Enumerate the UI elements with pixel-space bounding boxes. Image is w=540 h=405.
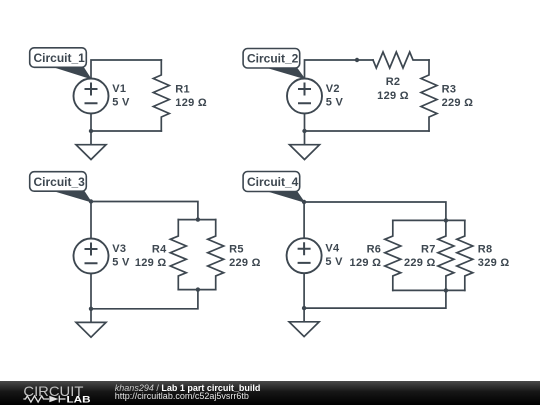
wire: V4 bottom stub to ground <box>303 273 305 322</box>
svg-text:LAB: LAB <box>67 395 92 405</box>
node dot circuit2 bottom <box>302 129 306 133</box>
svg-text:V4: V4 <box>325 243 340 255</box>
wire: V2 bottom stub to ground <box>304 114 306 145</box>
label Circuit_3 <box>55 191 91 202</box>
svg-text:R4: R4 <box>152 243 167 255</box>
wire: V3 top stub <box>90 202 92 239</box>
svg-text:Circuit_2: Circuit_2 <box>247 52 299 66</box>
node dot circuit4 bottom <box>302 306 306 310</box>
logo zigzag and diode <box>23 396 65 403</box>
resistor R2 (horizontal) <box>373 52 429 68</box>
svg-text:Circuit_4: Circuit_4 <box>247 175 299 189</box>
node dot circuit4 topleft <box>302 200 306 204</box>
label Circuit_2 <box>269 68 305 79</box>
svg-text:229 Ω: 229 Ω <box>404 257 436 269</box>
svg-text:R3: R3 <box>442 83 457 95</box>
svg-text:5 V: 5 V <box>112 257 130 269</box>
svg-text:229 Ω: 229 Ω <box>229 257 261 269</box>
wire: top from V4 to parallel block <box>304 202 446 220</box>
wire: block4 bottom bar <box>393 289 465 291</box>
resistor R3 <box>421 60 437 131</box>
svg-text:129 Ω: 129 Ω <box>175 97 207 109</box>
voltage source V3 <box>74 239 109 274</box>
svg-text:Circuit_1: Circuit_1 <box>34 51 86 65</box>
svg-text:R5: R5 <box>229 243 244 255</box>
svg-text:129 Ω: 129 Ω <box>377 90 409 102</box>
wire: V1 top to corner <box>91 60 161 79</box>
wire: block3 to bottom rail <box>91 290 198 309</box>
ground circuit3 <box>76 322 106 337</box>
resistor R1 <box>153 60 169 131</box>
wire: V4 top stub <box>303 202 305 238</box>
svg-text:5 V: 5 V <box>326 97 344 109</box>
ground circuit4 <box>289 322 319 337</box>
node dot block3 bottom <box>196 287 200 291</box>
svg-text:Circuit_3: Circuit_3 <box>34 175 86 189</box>
wire: bottom return to V1 <box>91 130 161 132</box>
wire: block3 top bar <box>178 219 215 221</box>
svg-text:http://circuitlab.com/c52aj5vs: http://circuitlab.com/c52aj5vsrr6tb <box>115 391 249 401</box>
wire: V3 bottom stub to ground <box>90 274 92 323</box>
svg-text:R2: R2 <box>386 76 401 88</box>
ground circuit2 <box>290 145 320 160</box>
resistor R6 <box>385 220 401 290</box>
svg-text:229 Ω: 229 Ω <box>442 97 474 109</box>
node dot block3 top <box>196 217 200 221</box>
voltage source V1 <box>74 79 109 114</box>
node dot block4 bottom <box>444 288 448 292</box>
wire: block4 top bar <box>393 219 465 221</box>
resistor R7 <box>438 220 454 290</box>
wire: V1 bottom stub to ground <box>90 114 92 145</box>
svg-text:329 Ω: 329 Ω <box>478 257 510 269</box>
node dot circuit3 bottom <box>89 307 93 311</box>
svg-text:V1: V1 <box>112 83 126 95</box>
label Circuit_1 <box>55 67 90 78</box>
wire: top from V3 to parallel block <box>91 202 198 220</box>
wire: block3 bottom bar <box>178 289 215 291</box>
svg-text:5 V: 5 V <box>112 97 130 109</box>
voltage source V2 <box>287 79 322 114</box>
svg-text:129 Ω: 129 Ω <box>135 257 167 269</box>
svg-text:129 Ω: 129 Ω <box>350 257 382 269</box>
svg-text:5 V: 5 V <box>325 256 343 268</box>
node dot circuit2 top <box>355 58 359 62</box>
node dot block4 top <box>444 218 448 222</box>
ground circuit1 <box>76 145 106 160</box>
resistor R5 <box>208 220 224 290</box>
label Circuit_4 <box>269 191 304 202</box>
node dot circuit3 topleft <box>89 199 93 203</box>
svg-text:R6: R6 <box>367 243 382 255</box>
wire: bottom return to V2 <box>305 130 430 132</box>
svg-text:R8: R8 <box>478 243 493 255</box>
node dot circuit1 bottom <box>89 129 93 133</box>
resistor R8 <box>457 220 473 290</box>
svg-text:V2: V2 <box>326 83 340 95</box>
svg-text:V3: V3 <box>112 243 126 255</box>
wire: V2 top to R2 <box>305 60 374 79</box>
svg-text:R1: R1 <box>175 83 190 95</box>
svg-text:R7: R7 <box>421 243 436 255</box>
wire: block4 to bottom rail <box>304 290 446 308</box>
voltage source V4 <box>287 238 322 273</box>
resistor R4 <box>170 220 186 290</box>
